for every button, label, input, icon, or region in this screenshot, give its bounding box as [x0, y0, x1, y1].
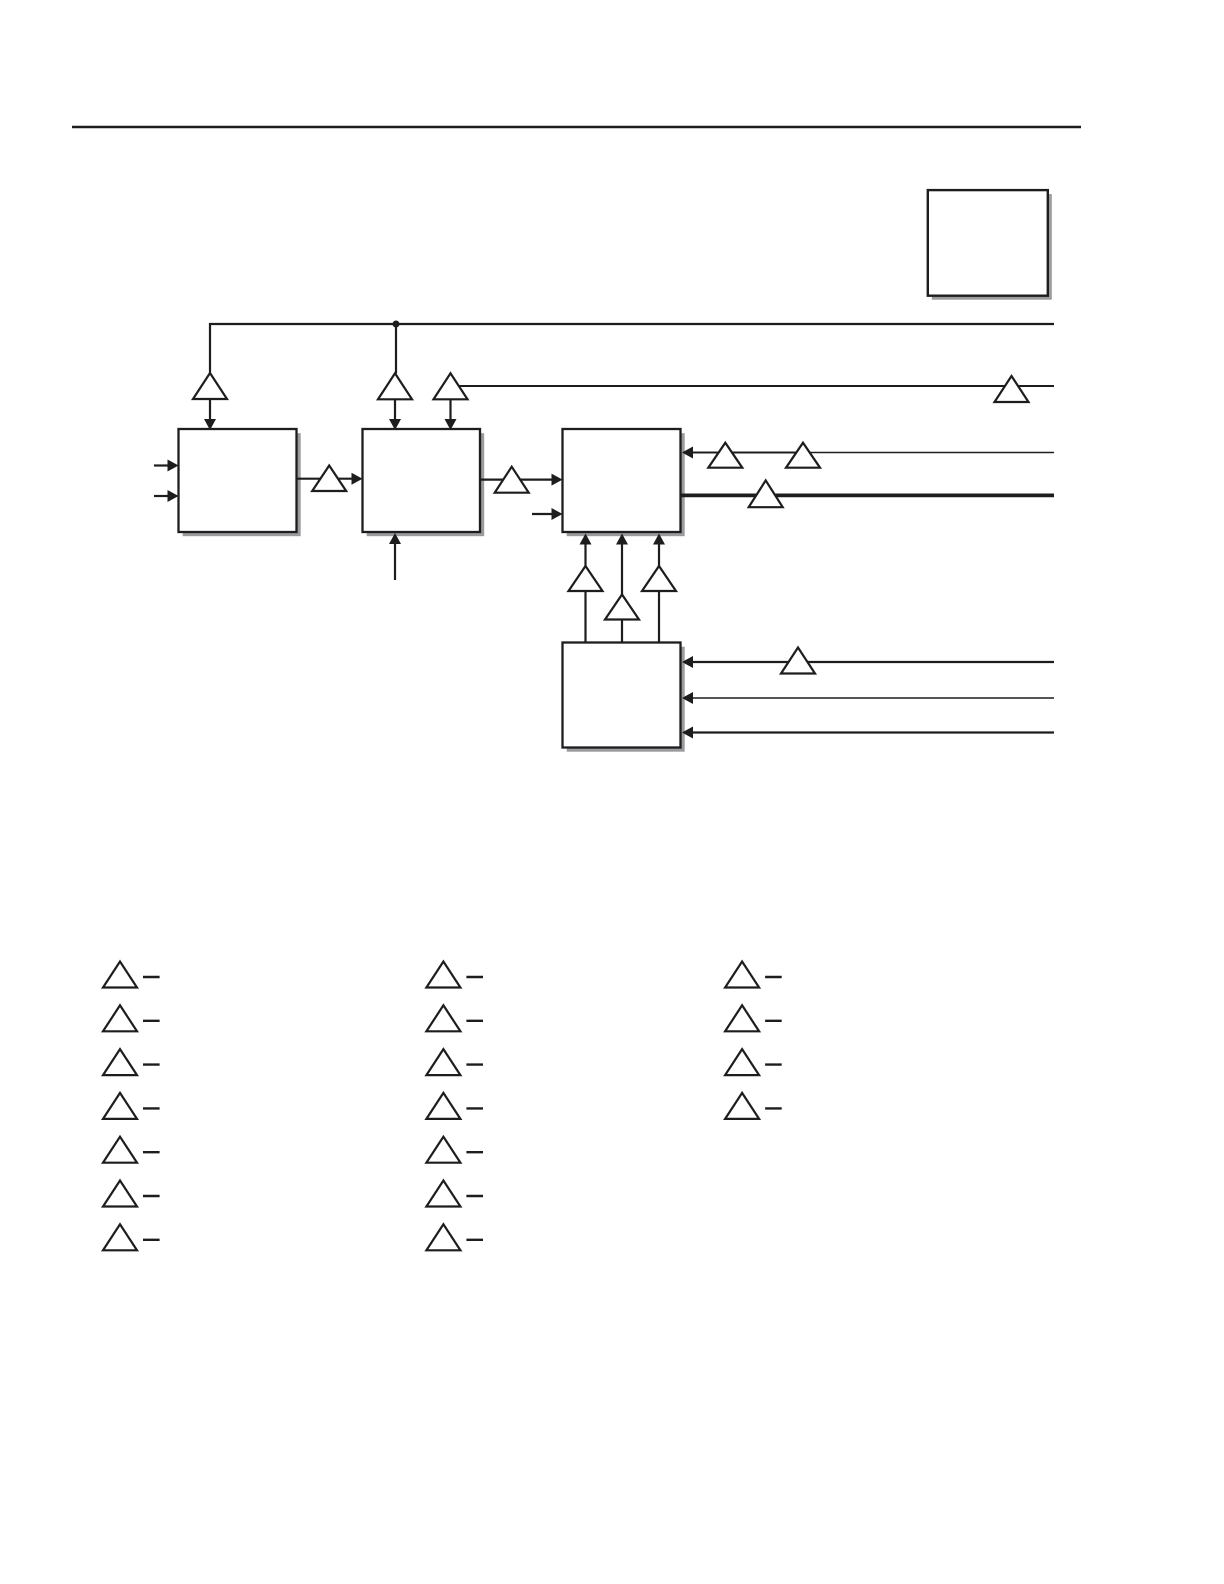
- legend note 6: [103, 1181, 160, 1207]
- note triangle 7: [786, 443, 820, 468]
- wire: note 3 arrow into block 2 top: [389, 399, 401, 430]
- note triangle 3 (above block 2, from junction): [378, 373, 412, 399]
- legend note 17: [725, 1049, 782, 1075]
- header rule: [72, 126, 1081, 129]
- note triangle 11 (on right riser): [642, 566, 676, 591]
- legend note 15: [725, 962, 782, 988]
- wire: signal line from note 4 to right edge: [451, 385, 1055, 387]
- legend note 14: [426, 1224, 483, 1250]
- wire: bold output line from block 3 right: [681, 494, 1055, 498]
- wire: input line 2 into block 4 right: [682, 692, 1054, 704]
- wire: block 2 to block 3: [480, 474, 563, 486]
- note triangle 2 (on block1-block2 wire): [312, 466, 346, 492]
- legend note 2: [103, 1005, 160, 1031]
- legend note 8: [426, 962, 483, 988]
- legend note 7: [103, 1224, 160, 1250]
- note triangle 5 (on block2-block3 wire): [495, 467, 529, 493]
- wire: input line 3 into block 4 right: [682, 727, 1054, 739]
- wire: block 4 to block 3 left riser: [580, 534, 592, 643]
- node: bus junction dot: [393, 321, 400, 328]
- legend box (top right): [928, 190, 1052, 300]
- wire: block 4 to block 3 right riser: [653, 534, 665, 643]
- wire: short input arrow into block 3 left: [532, 508, 563, 520]
- note triangle 1 (above block 1): [193, 373, 227, 399]
- wire: input line 1 into block 4 right (with note 12): [682, 656, 1054, 668]
- block 1: [179, 429, 301, 536]
- note triangle 12: [781, 648, 815, 674]
- legend note 13: [426, 1181, 483, 1207]
- note triangle 4 (above block 2, on signal line): [434, 373, 468, 399]
- block 2: [363, 429, 485, 536]
- legend note 1: [103, 962, 160, 988]
- wire: note 1 arrow into block 1 top: [204, 399, 216, 430]
- wire: junction drop to note 2: [395, 324, 397, 374]
- note triangle 6: [708, 443, 742, 468]
- block 3: [563, 429, 685, 536]
- note triangle 9 (on left riser): [569, 566, 603, 591]
- wire: input line into block 3 right (with notes 6,7): [682, 447, 1054, 459]
- legend note 18: [725, 1093, 782, 1119]
- note triangle 8 (on bold line): [749, 480, 783, 507]
- wire: block 1 to block 2: [297, 473, 363, 485]
- block 4: [563, 643, 685, 752]
- note triangle 10 (on middle riser): [605, 595, 639, 620]
- legend note 11: [426, 1093, 483, 1119]
- wire: input arrow B into block 1: [154, 490, 179, 502]
- wire: note 4 arrow into block 2 top: [445, 399, 457, 430]
- note triangle 13 (on signal line, right end): [995, 376, 1029, 402]
- legend note 3: [103, 1049, 160, 1075]
- legend note 16: [725, 1005, 782, 1031]
- legend note 10: [426, 1049, 483, 1075]
- legend note 9: [426, 1005, 483, 1031]
- wire: top bus from CPU drop to right edge: [210, 324, 1054, 374]
- wire: bottom arrow up into block 2: [389, 533, 401, 580]
- legend note 4: [103, 1093, 160, 1119]
- wire: block 4 to block 3 middle riser: [616, 534, 628, 643]
- legend note 5: [103, 1137, 160, 1163]
- wire: input arrow A into block 1: [154, 460, 179, 472]
- legend note 12: [426, 1137, 483, 1163]
